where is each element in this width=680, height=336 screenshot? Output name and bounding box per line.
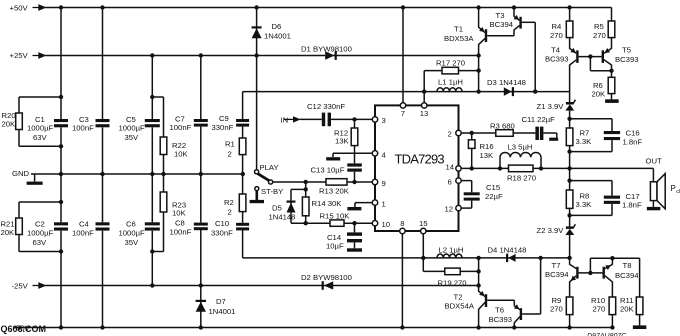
- svg-text:20K: 20K: [1, 228, 16, 237]
- svg-text:330nF: 330nF: [211, 229, 233, 238]
- svg-text:3.3K: 3.3K: [576, 137, 593, 146]
- svg-text:6: 6: [448, 177, 452, 186]
- svg-text:C13 10µF: C13 10µF: [311, 166, 345, 175]
- svg-text:D7: D7: [216, 297, 226, 306]
- svg-text:100nF: 100nF: [170, 228, 192, 237]
- svg-text:T4: T4: [551, 46, 561, 55]
- svg-text:D2 BYW98100: D2 BYW98100: [301, 273, 352, 282]
- svg-text:1N4001: 1N4001: [209, 307, 236, 316]
- svg-text:R13 20K: R13 20K: [319, 187, 350, 196]
- svg-text:100nF: 100nF: [170, 123, 192, 132]
- svg-text:T8: T8: [623, 261, 632, 270]
- svg-text:C15: C15: [486, 183, 500, 192]
- svg-text:1000µF: 1000µF: [119, 229, 146, 238]
- svg-text:3: 3: [382, 116, 386, 125]
- svg-text:20K: 20K: [2, 120, 17, 129]
- svg-text:PLAY: PLAY: [260, 163, 279, 172]
- svg-text:3.3K: 3.3K: [576, 200, 593, 209]
- svg-text:Z1 3.9V: Z1 3.9V: [537, 102, 565, 111]
- svg-text:BDX54A: BDX54A: [445, 301, 475, 310]
- svg-text:R16: R16: [480, 142, 494, 151]
- svg-text:R4: R4: [552, 22, 563, 31]
- svg-text:270: 270: [550, 31, 563, 40]
- svg-text:270: 270: [593, 305, 606, 314]
- svg-text:C7: C7: [175, 114, 185, 123]
- svg-text:2: 2: [448, 130, 452, 139]
- svg-text:D6: D6: [272, 22, 282, 31]
- svg-text:L3 5µH: L3 5µH: [508, 142, 533, 151]
- svg-text:13K: 13K: [335, 136, 350, 145]
- svg-text:T3: T3: [496, 11, 505, 20]
- svg-text:D1 BYW98100: D1 BYW98100: [301, 45, 352, 54]
- svg-text:7: 7: [401, 109, 405, 118]
- svg-text:IN: IN: [281, 115, 289, 124]
- svg-text:T2: T2: [454, 293, 463, 302]
- svg-text:R17 270: R17 270: [436, 58, 465, 67]
- svg-text:ST-BY: ST-BY: [261, 187, 283, 196]
- svg-text:T7: T7: [552, 261, 561, 270]
- svg-text:BDX53A: BDX53A: [444, 34, 474, 43]
- svg-text:C12 330nF: C12 330nF: [307, 102, 345, 111]
- svg-text:1.8nF: 1.8nF: [622, 200, 642, 209]
- svg-text:330nF: 330nF: [212, 123, 234, 132]
- svg-text:100nF: 100nF: [72, 124, 94, 133]
- svg-text:35V: 35V: [125, 238, 140, 247]
- svg-text:14: 14: [446, 163, 455, 172]
- svg-text:R3 680: R3 680: [490, 121, 515, 130]
- svg-text:-25V: -25V: [12, 281, 29, 290]
- svg-text:R1: R1: [225, 140, 235, 149]
- svg-text:1000µF: 1000µF: [27, 229, 54, 238]
- svg-text:C9: C9: [219, 114, 229, 123]
- svg-text:13K: 13K: [480, 151, 495, 160]
- svg-text:4: 4: [382, 151, 387, 160]
- svg-text:8: 8: [400, 219, 404, 228]
- svg-text:C8: C8: [175, 219, 185, 228]
- svg-text:2: 2: [228, 150, 232, 159]
- svg-text:P: P: [671, 184, 676, 193]
- svg-text:C11 22µF: C11 22µF: [522, 115, 556, 124]
- svg-text:63V: 63V: [33, 133, 48, 142]
- svg-text:GND: GND: [12, 169, 30, 178]
- svg-text:L2 1µH: L2 1µH: [439, 245, 464, 254]
- svg-text:ch: ch: [676, 189, 680, 195]
- svg-text:BC394: BC394: [545, 270, 569, 279]
- svg-text:BC393: BC393: [489, 315, 513, 324]
- svg-text:D5: D5: [272, 203, 282, 212]
- svg-text:1N4001: 1N4001: [264, 32, 291, 41]
- svg-text:T1: T1: [454, 25, 463, 34]
- svg-text:BC393: BC393: [545, 55, 569, 64]
- svg-text:Q606.COM: Q606.COM: [1, 324, 47, 334]
- svg-text:TDA7293: TDA7293: [395, 152, 445, 167]
- svg-text:C16: C16: [626, 129, 640, 138]
- svg-text:20K: 20K: [620, 305, 635, 314]
- svg-text:R14 30K: R14 30K: [312, 199, 343, 208]
- svg-text:270: 270: [593, 31, 606, 40]
- svg-text:C10: C10: [215, 219, 229, 228]
- svg-text:L1 1µH: L1 1µH: [438, 78, 463, 87]
- svg-text:1.8nF: 1.8nF: [623, 137, 643, 146]
- svg-text:10K: 10K: [172, 209, 187, 218]
- svg-text:13: 13: [420, 109, 429, 118]
- svg-text:C2: C2: [35, 220, 45, 229]
- svg-text:1000µF: 1000µF: [27, 124, 54, 133]
- svg-text:BC393: BC393: [615, 55, 639, 64]
- svg-text:R15 10K: R15 10K: [320, 211, 351, 220]
- svg-text:+50V: +50V: [10, 4, 29, 13]
- svg-text:OUT: OUT: [646, 156, 663, 165]
- svg-text:22µF: 22µF: [485, 192, 503, 201]
- svg-text:R19 270: R19 270: [438, 278, 467, 287]
- svg-text:BC394: BC394: [615, 271, 639, 280]
- svg-text:D3 1N4148: D3 1N4148: [487, 78, 526, 87]
- svg-text:1N4148: 1N4148: [269, 212, 296, 221]
- svg-text:9: 9: [382, 179, 386, 188]
- svg-text:10µF: 10µF: [326, 241, 344, 250]
- svg-text:1: 1: [382, 200, 386, 209]
- svg-text:270: 270: [550, 305, 563, 314]
- svg-text:Z2 3.9V: Z2 3.9V: [537, 226, 565, 235]
- svg-text:D4 1N4148: D4 1N4148: [488, 245, 527, 254]
- svg-text:20K: 20K: [592, 89, 607, 98]
- svg-text:1000µF: 1000µF: [119, 124, 146, 133]
- svg-text:12: 12: [445, 205, 454, 214]
- svg-text:R18 270: R18 270: [507, 174, 536, 183]
- svg-text:BC394: BC394: [490, 20, 514, 29]
- svg-text:T6: T6: [495, 306, 504, 315]
- svg-text:C4: C4: [79, 220, 90, 229]
- svg-text:2: 2: [228, 208, 232, 217]
- svg-text:10K: 10K: [174, 150, 189, 159]
- svg-text:T5: T5: [622, 46, 631, 55]
- svg-text:C6: C6: [126, 220, 136, 229]
- svg-text:15: 15: [419, 219, 428, 228]
- svg-text:100nF: 100nF: [72, 229, 94, 238]
- svg-text:10: 10: [382, 220, 391, 229]
- svg-text:R5: R5: [594, 22, 604, 31]
- svg-text:63V: 63V: [33, 238, 48, 247]
- svg-text:35V: 35V: [125, 133, 140, 142]
- svg-text:+25V: +25V: [10, 51, 29, 60]
- svg-text:R2: R2: [224, 198, 234, 207]
